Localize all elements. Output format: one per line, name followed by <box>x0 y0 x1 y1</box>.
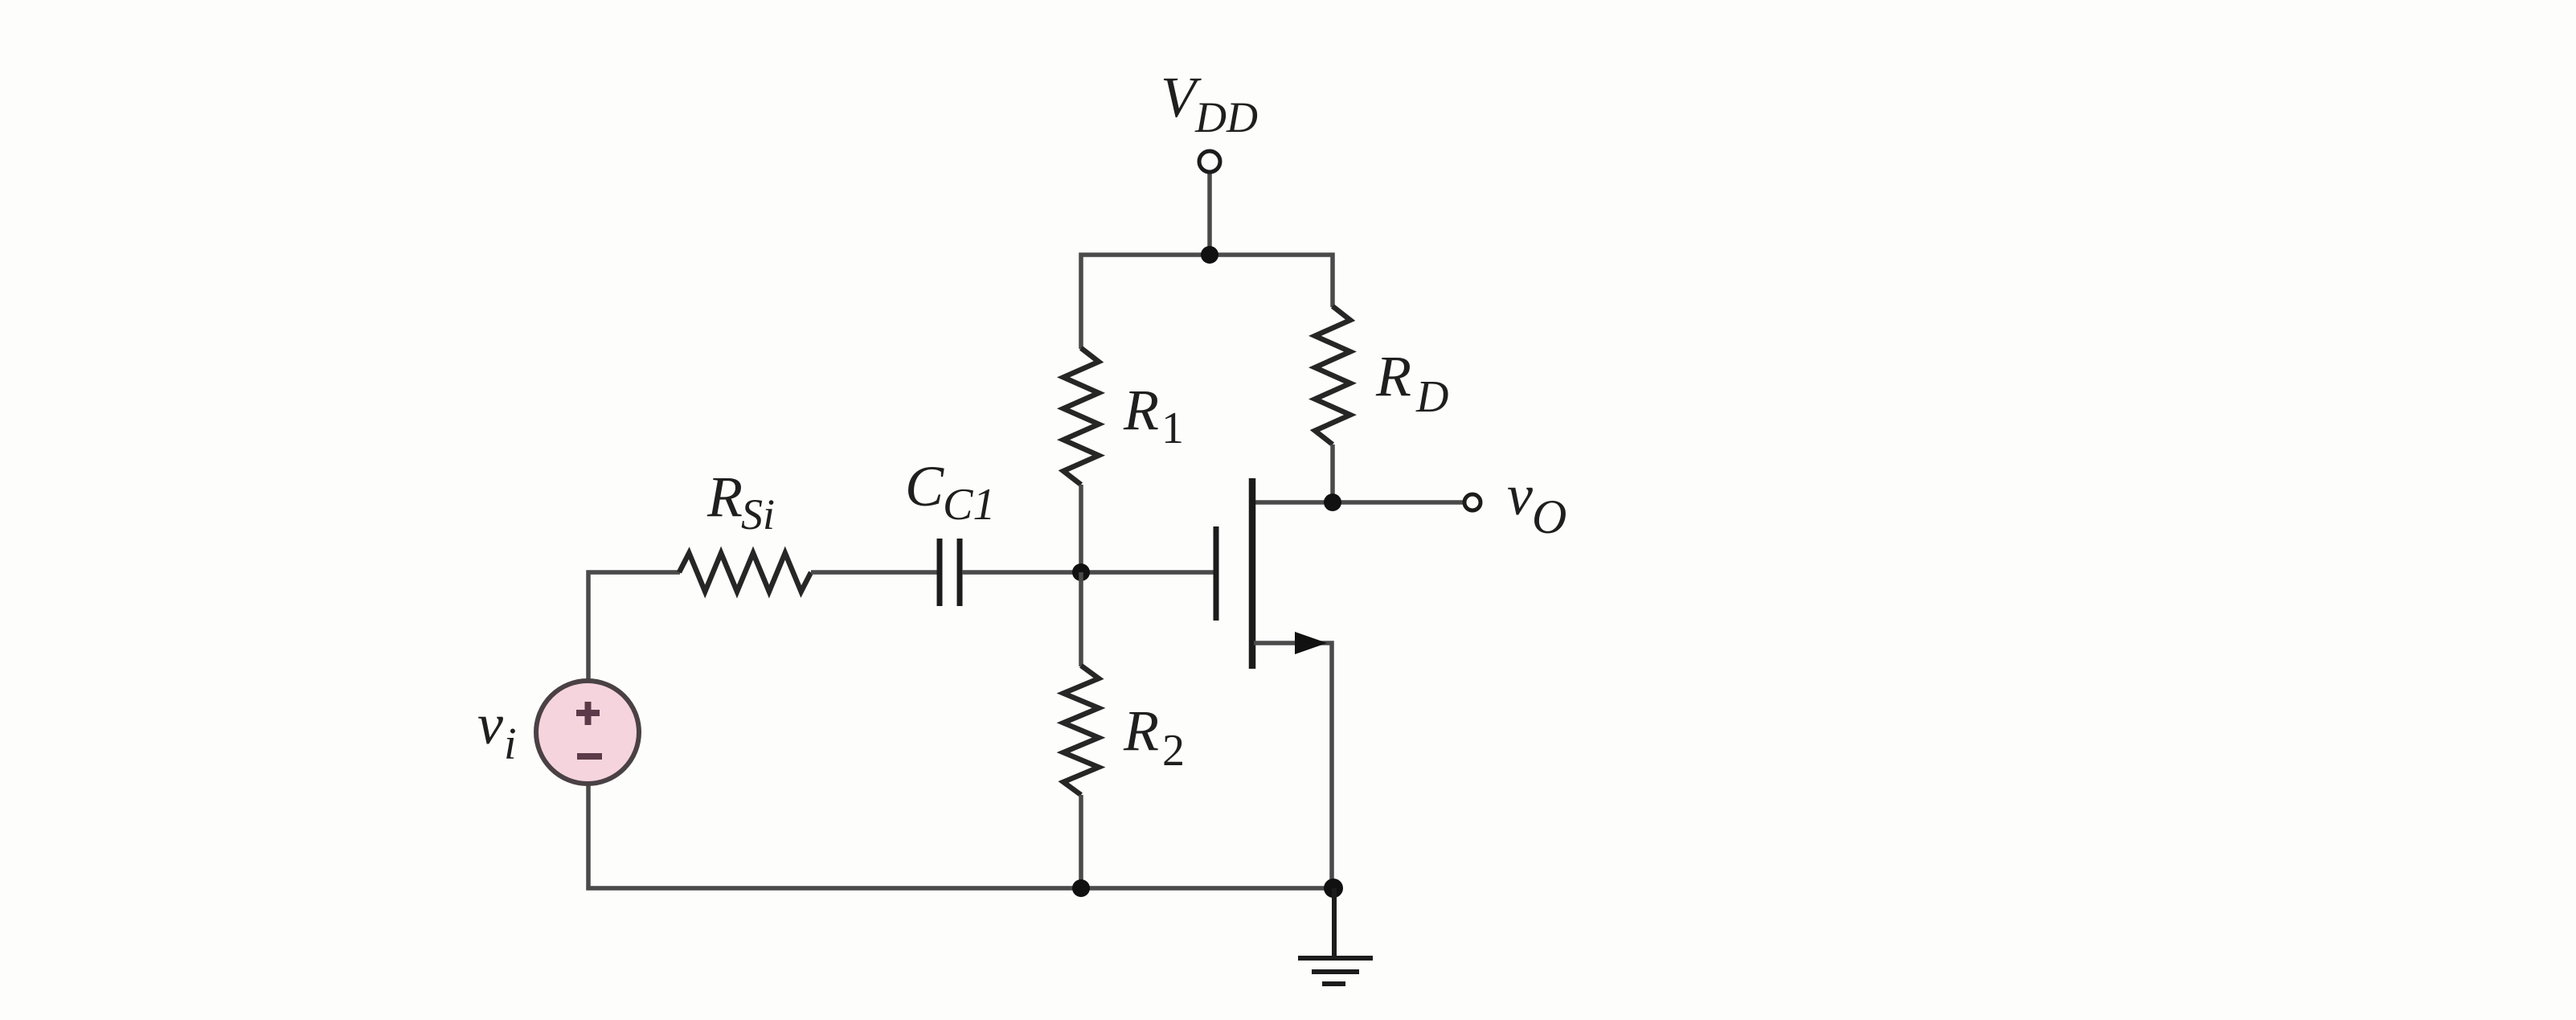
svg-text:C: C <box>905 454 944 518</box>
svg-text:i: i <box>504 719 517 769</box>
wire: R1 bottom lead <box>1079 485 1083 572</box>
node: VDD rail junction dot <box>1201 246 1218 264</box>
terminal: vo open circle <box>1464 494 1480 510</box>
capacitor CC1 plates <box>940 539 960 606</box>
wire: vi bottom lead and bottom rail <box>588 784 1333 888</box>
svg-text:DD: DD <box>1194 93 1258 141</box>
svg-text:v: v <box>1507 463 1533 527</box>
transistor M1 source lead and drop to bottom rail <box>1254 643 1332 888</box>
wire: R2 bottom lead <box>1079 795 1083 888</box>
svg-text:R: R <box>1123 698 1159 763</box>
resistor R1 body <box>1063 348 1099 485</box>
transistor M1 gate bar <box>1214 526 1219 621</box>
node: ground rail junction dot <box>1324 879 1343 898</box>
transistor M1 channel bar <box>1249 478 1256 669</box>
wire: RD bottom lead <box>1330 444 1335 502</box>
voltage source vi plus sign <box>576 702 600 725</box>
resistor R2 body <box>1063 666 1099 795</box>
svg-text:2: 2 <box>1162 726 1185 776</box>
node: gate junction dot <box>1072 563 1090 581</box>
svg-text:O: O <box>1532 490 1566 543</box>
transistor M1 source arrow <box>1295 632 1327 654</box>
svg-text:R: R <box>1375 344 1411 408</box>
svg-text:C1: C1 <box>943 480 995 530</box>
svg-text:R: R <box>706 465 743 529</box>
wire: VDD stub <box>1207 174 1212 255</box>
resistor RSi body <box>679 553 811 592</box>
wire: capacitor to gate bar (through gate node) <box>962 570 1214 575</box>
svg-text:v: v <box>477 692 503 756</box>
svg-text:D: D <box>1415 372 1448 422</box>
voltage source vi minus sign <box>577 753 602 760</box>
svg-text:R: R <box>1123 378 1159 442</box>
resistor RD body <box>1315 306 1350 444</box>
wire: R2 top lead <box>1079 572 1083 666</box>
node: drain junction dot <box>1324 494 1341 511</box>
ground symbol <box>1298 888 1373 984</box>
voltage source vi circle <box>536 681 639 784</box>
wire: vi top lead and corner to Rsi <box>588 572 680 681</box>
svg-text:Si: Si <box>741 490 775 539</box>
svg-text:1: 1 <box>1161 403 1184 453</box>
wire: drain to vo <box>1254 500 1464 505</box>
terminal: VDD open circle <box>1199 151 1220 172</box>
wire: Rsi to capacitor <box>811 570 937 575</box>
node: R2 bottom rail junction dot <box>1072 879 1090 897</box>
wire: VDD rail with corners down to R1 and RD <box>1081 255 1333 349</box>
